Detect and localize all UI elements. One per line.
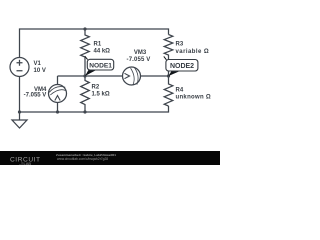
svg-text:R4: R4 bbox=[176, 87, 184, 93]
svg-text:10 V: 10 V bbox=[34, 68, 46, 74]
svg-text:www.circuitlab.com/c/bsqwk2r7g: www.circuitlab.com/c/bsqwk2r7g28 bbox=[57, 157, 108, 161]
svg-text:R2: R2 bbox=[92, 85, 100, 91]
svg-text:1.5 kΩ: 1.5 kΩ bbox=[92, 91, 110, 97]
svg-text:-7.055 V: -7.055 V bbox=[127, 57, 151, 63]
svg-text:NODE1: NODE1 bbox=[89, 62, 112, 69]
svg-text:NODE2: NODE2 bbox=[170, 63, 194, 70]
svg-text:unknown Ω: unknown Ω bbox=[176, 94, 212, 100]
svg-text:–≡LAB: –≡LAB bbox=[19, 161, 31, 165]
svg-text:R1: R1 bbox=[94, 42, 102, 48]
svg-text:44 kΩ: 44 kΩ bbox=[94, 48, 111, 54]
svg-text:variable Ω: variable Ω bbox=[176, 49, 210, 55]
svg-text:VM3: VM3 bbox=[134, 50, 147, 56]
svg-text:V1: V1 bbox=[34, 61, 42, 67]
svg-text:-7.055 V: -7.055 V bbox=[24, 93, 47, 99]
svg-text:R3: R3 bbox=[176, 41, 184, 47]
